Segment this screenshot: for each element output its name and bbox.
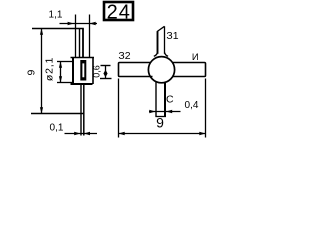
0,6 ext top (101, 65, 111, 67)
svg-text:0,4: 0,4 (185, 100, 199, 111)
column right thick (82, 29, 84, 58)
arrow 0,1 left (74, 132, 80, 135)
svg-text:З1: З1 (166, 30, 178, 42)
arrow phi bottom (59, 76, 62, 82)
svg-text:И: И (192, 52, 199, 63)
svg-text:З2: З2 (118, 50, 130, 62)
Z1 blade (157, 31, 159, 54)
svg-text:С: С (166, 94, 174, 106)
C stem (155, 82, 157, 117)
arrow 9-left bottom (40, 107, 43, 113)
left arm Z2 (119, 63, 153, 77)
0,1 dim line (65, 133, 98, 135)
arrow 1,1 left (68, 22, 74, 25)
svg-text:0,6: 0,6 (91, 65, 101, 78)
0,4 dim line (149, 111, 181, 113)
phi2,1 ext bottom (57, 82, 73, 84)
svg-text:9: 9 (156, 115, 164, 131)
circle body (148, 57, 174, 83)
svg-text:9: 9 (26, 70, 38, 76)
boxed 24 (104, 2, 133, 20)
0,6 ext bottom (100, 78, 112, 80)
0,6 dim line (105, 66, 107, 79)
long top line (9 ext + column top) (32, 28, 84, 30)
arrow phi top (59, 62, 62, 68)
arrow 0,4 left (149, 110, 155, 113)
disc left thick (72, 58, 74, 85)
phi2,1 ext top (57, 61, 73, 63)
C stem bottom cap (155, 116, 166, 118)
arrow span left (119, 132, 125, 135)
arrow 9-left top (40, 29, 43, 35)
disc right (92, 58, 94, 85)
arrow 0,1 right (84, 132, 90, 135)
C lead pin below disc (80, 84, 82, 136)
9 bottom ext line (31, 113, 84, 115)
9 dim line left (41, 29, 43, 114)
arrow 1,1 right (90, 22, 96, 25)
big span ext left (118, 79, 120, 138)
big span ext right (205, 79, 207, 138)
disc bottom thick (71, 83, 93, 85)
arrow 0,4 right (166, 110, 172, 113)
arrow span right (199, 132, 205, 135)
svg-text:0,1: 0,1 (50, 123, 64, 134)
dim line 1,1 top (60, 23, 98, 25)
svg-text:24: 24 (107, 1, 131, 23)
svg-text:ø2,1: ø2,1 (43, 57, 55, 81)
phi2,1 dim line (60, 62, 62, 83)
ext line A (75, 15, 77, 58)
right arm I (172, 63, 205, 77)
disc top (71, 57, 95, 59)
svg-text:1,1: 1,1 (49, 10, 63, 21)
big span dim line (119, 133, 206, 135)
arrows 0,6 diamond (103, 70, 107, 77)
ext line D (89, 15, 91, 58)
C lead glass slot (80, 60, 86, 81)
column left (Z1 edge) (79, 29, 81, 58)
